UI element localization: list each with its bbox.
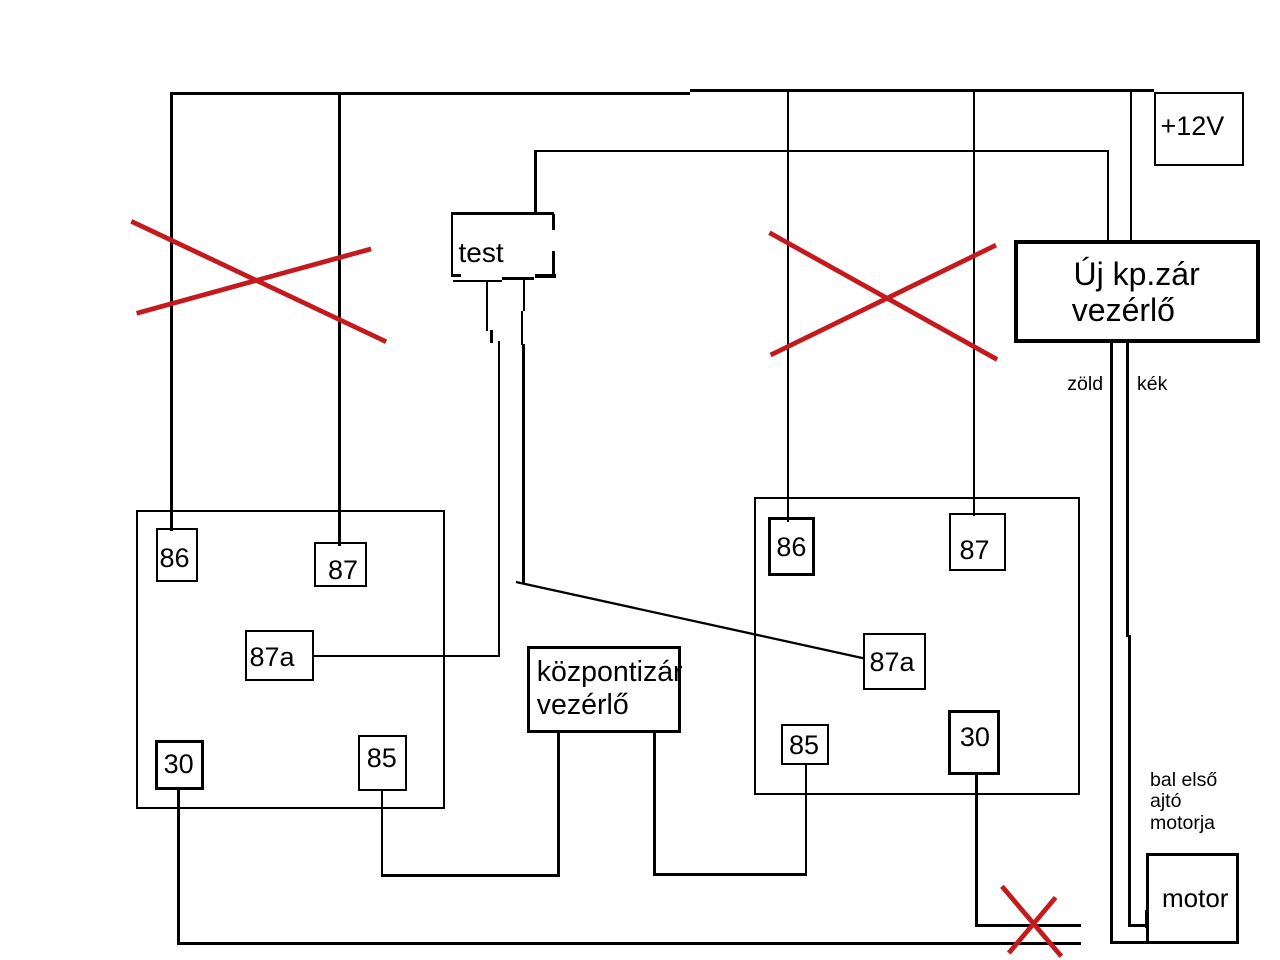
terminal R87: [949, 513, 1007, 571]
red X small stroke B: [1009, 898, 1056, 954]
terminal L87a: [245, 630, 314, 682]
wire: left relay 87 drop: [338, 94, 340, 546]
wire: top bus left segment: [170, 92, 690, 94]
label: vezerlo line 2: [1072, 294, 1175, 326]
label: test: [459, 239, 504, 267]
wire: right relay 86 drop: [787, 91, 789, 522]
wire: test left leg main drop to 87a link: [498, 341, 501, 657]
relay box right: [754, 497, 1081, 795]
wire: left 85 drop: [381, 789, 384, 877]
power box +12V: [1154, 92, 1244, 167]
test box bottom right thick piece: [535, 274, 556, 278]
label: kozpontizar line 1: [537, 658, 683, 687]
wire: right relay 87 drop: [973, 91, 975, 516]
wire: kek leg below controller upper part: [1126, 343, 1129, 637]
terminal L30: [155, 740, 204, 789]
wire: test left leg piece 2: [490, 330, 493, 343]
test box right edge lower: [552, 251, 555, 276]
wire: test right leg piece 2: [521, 311, 523, 345]
wire: test right leg main drop: [522, 344, 525, 583]
wire: zold drop from second bus to controller box: [1107, 151, 1110, 240]
wire: right 30 bottom run: [975, 924, 1081, 927]
terminal R85: [781, 724, 830, 765]
label: Uj kp.zar line 1: [1074, 258, 1200, 290]
label: +12V: [1161, 113, 1225, 140]
red X small stroke A: [1002, 886, 1061, 956]
label: vezerlo line 2: [537, 691, 629, 720]
red X right stroke B: [771, 245, 996, 355]
wire: right 85 drop: [805, 765, 808, 876]
terminal L85: [358, 735, 407, 791]
label: kek: [1137, 375, 1167, 395]
wire: bottom bus: [177, 942, 1081, 945]
label: zold: [1067, 375, 1103, 395]
red X left stroke A: [131, 221, 386, 341]
red X left stroke B: [137, 249, 372, 313]
wire: test box drop: [534, 150, 537, 213]
wire: right 30 drop: [975, 774, 978, 928]
wire: second bus to test box: [535, 150, 1109, 153]
test box (hand drawn) top edge: [451, 212, 554, 215]
terminal R86: [768, 517, 815, 576]
wire: left 30 drop to bottom bus: [177, 790, 180, 945]
wire: right 85 horizontal link: [653, 873, 807, 876]
terminal L87: [314, 542, 367, 587]
wire: central lock left leg: [557, 733, 560, 877]
label: motor: [1162, 885, 1228, 911]
wire: kek drop from top bus to controller box: [1130, 91, 1133, 240]
wire: kek leg lower part: [1128, 635, 1131, 927]
controller box Uj kp.zar vezerlo: [1014, 240, 1260, 344]
terminal R87a: [863, 633, 926, 690]
wire: test right leg piece 1: [523, 278, 525, 311]
motor box: [1146, 853, 1239, 944]
wire: left 85 horizontal link: [381, 874, 561, 877]
terminal R30: [948, 710, 1001, 775]
wire: top bus right segment: [690, 89, 1154, 91]
terminal L86: [156, 528, 198, 582]
wire: link from left 87a to test left leg: [314, 655, 500, 658]
wire: thick tick on motor left edge: [1145, 910, 1150, 929]
wire: test left leg piece 1: [486, 281, 489, 331]
wire: central lock right leg: [653, 733, 656, 876]
label: bal elso ajto motorja: [1150, 770, 1217, 834]
central lock controller box: [527, 646, 681, 733]
wire: diagonal from test right leg to right 87a: [516, 582, 865, 659]
relay box left: [136, 510, 445, 809]
test box left edge: [451, 212, 454, 277]
test box bottom-left stub: [451, 274, 461, 277]
wire: kek run to motor left edge: [1128, 924, 1147, 927]
red X right stroke A: [769, 233, 997, 360]
wire: zold bottom run to motor: [1110, 941, 1147, 944]
wire: zold leg below controller to bottom: [1110, 343, 1113, 944]
test box bottom middle piece: [502, 277, 534, 280]
test box bottom lower-left long piece: [453, 280, 503, 282]
wire: left relay 86 drop: [170, 92, 172, 531]
test box right edge upper: [552, 214, 555, 230]
